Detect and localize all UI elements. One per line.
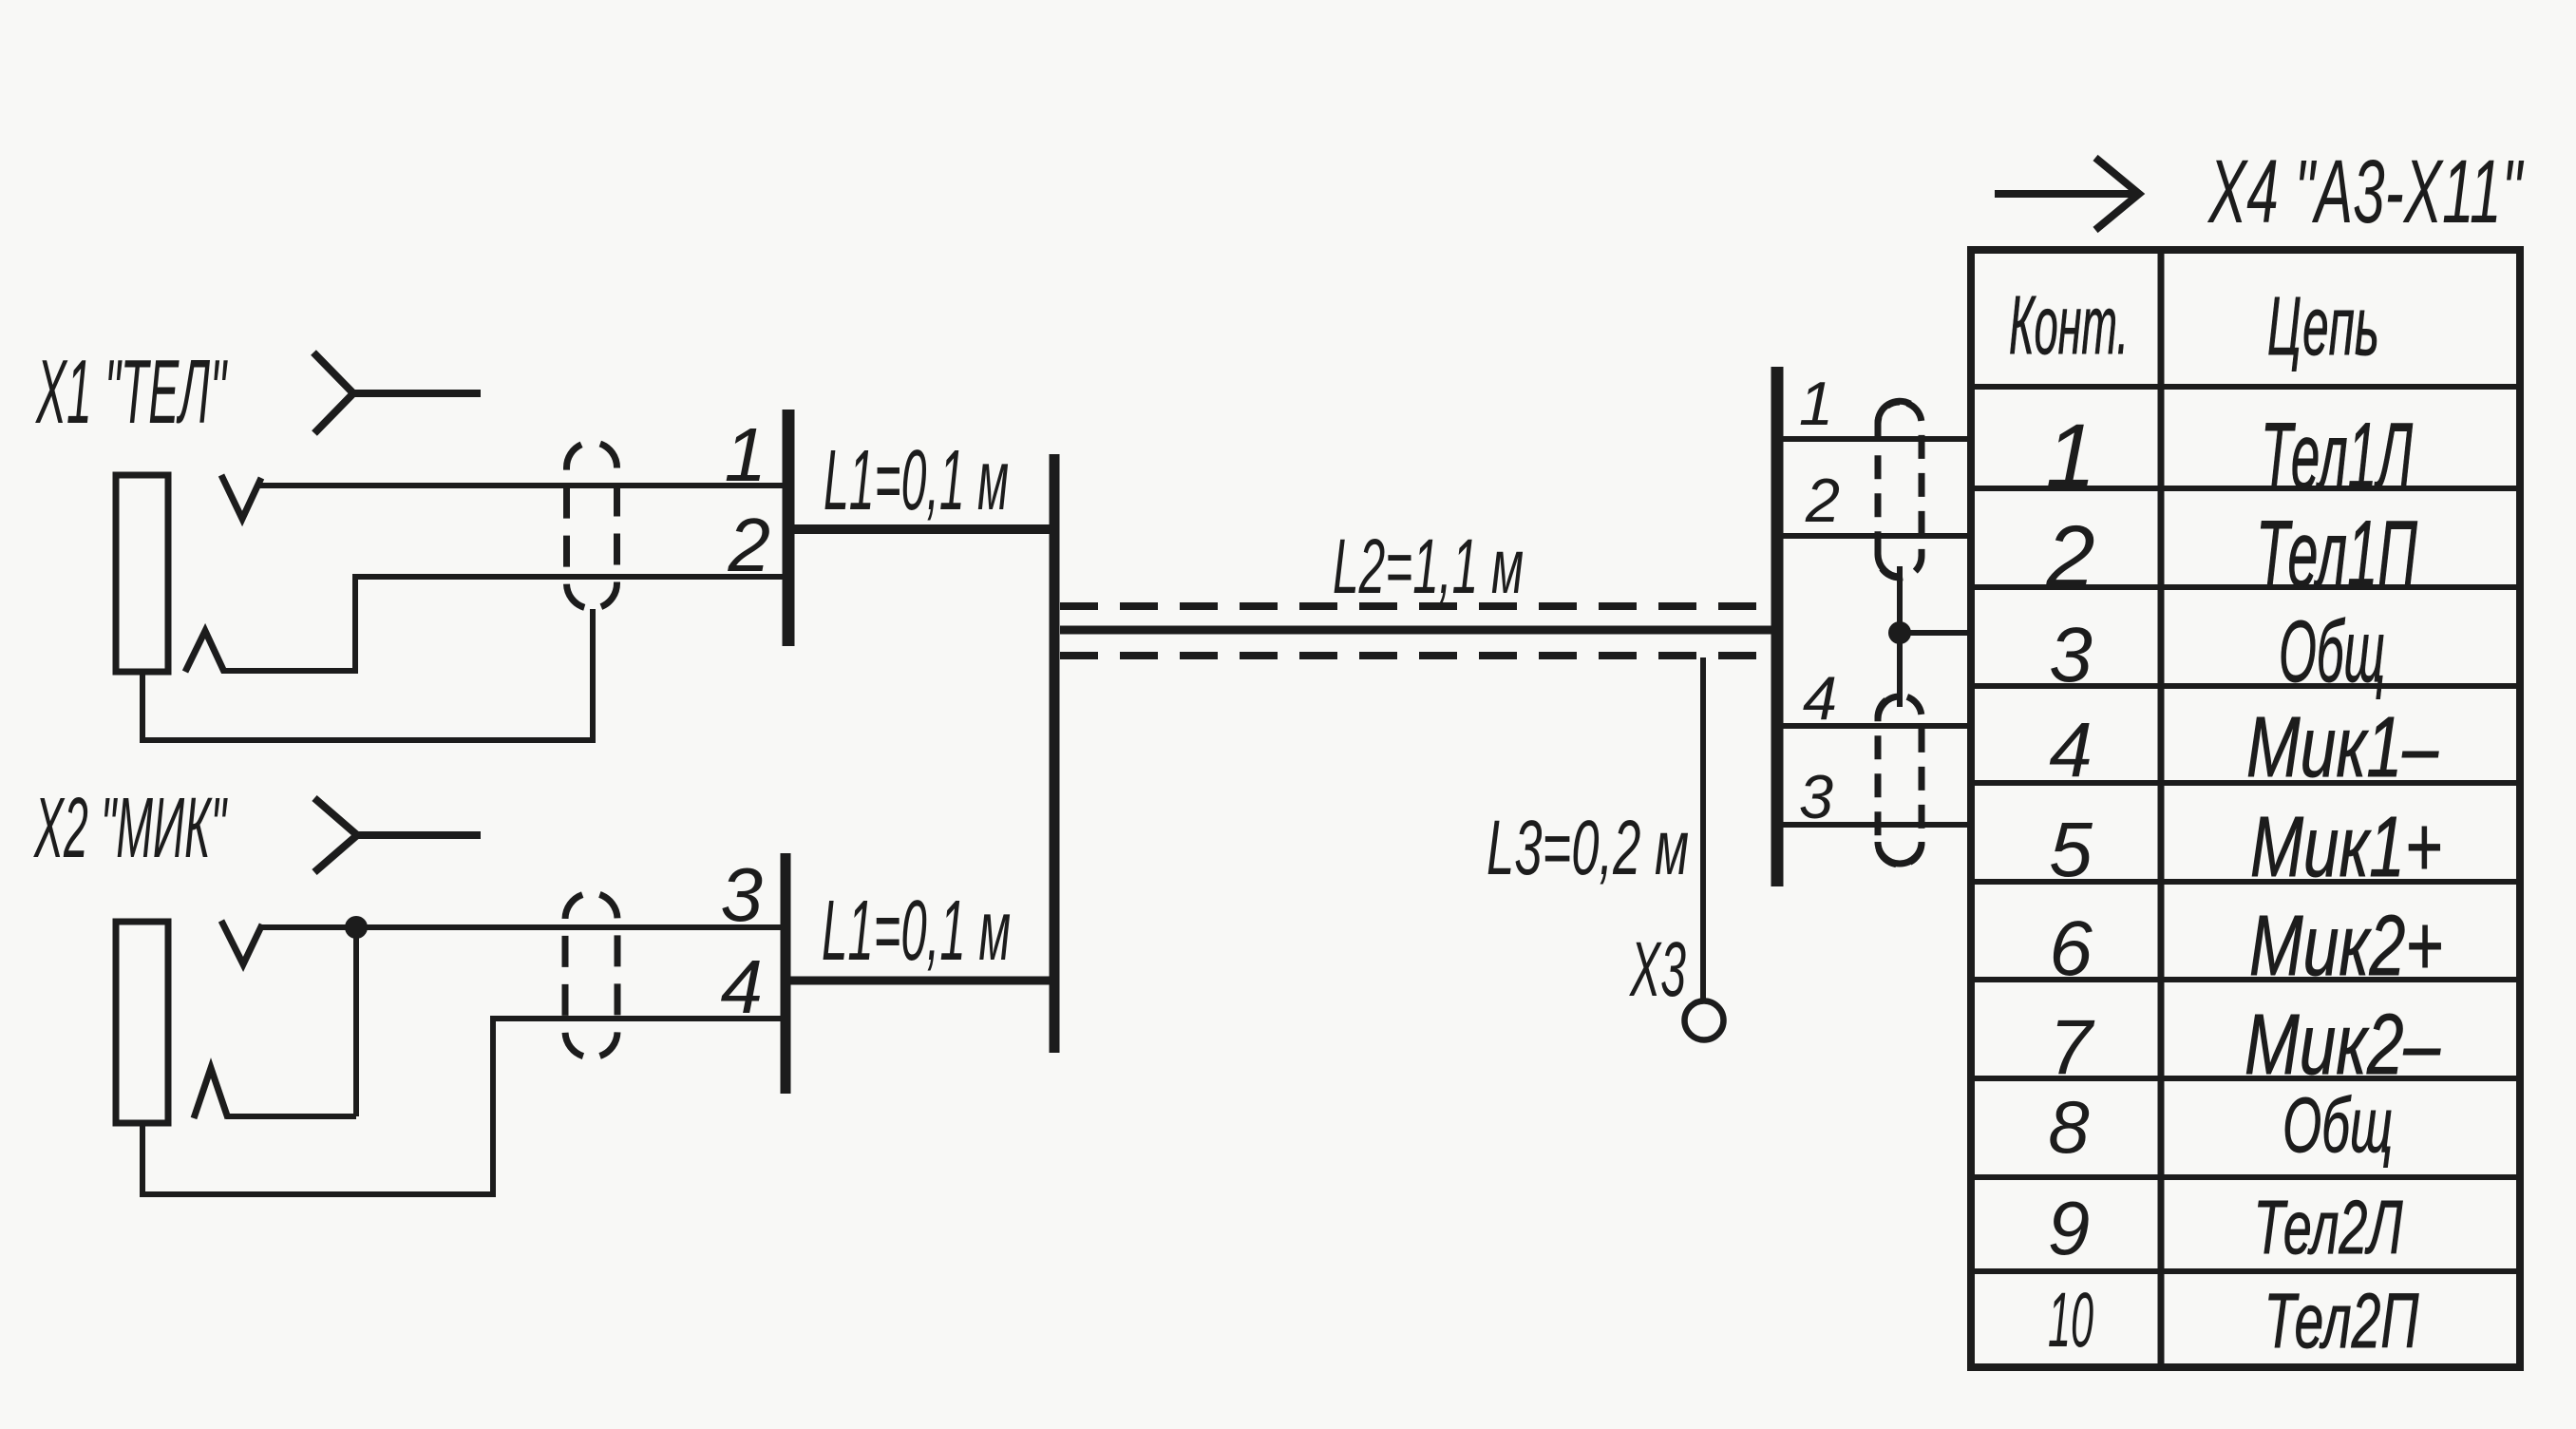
jack X2 tip contact <box>221 921 262 964</box>
shield S4 top hook <box>1878 696 1900 719</box>
svg-text:3: 3 <box>1799 762 1833 831</box>
svg-text:3: 3 <box>2049 612 2093 698</box>
wire stub pin3 <box>1783 822 1968 828</box>
table row line 8 <box>1971 1174 2520 1180</box>
jack X1 ring contact <box>185 631 224 672</box>
connector X3 terminal <box>1685 1001 1724 1040</box>
shield S3 top arc <box>1878 401 1910 424</box>
table X4 frame <box>1971 250 2520 1367</box>
svg-text:2: 2 <box>1805 466 1840 535</box>
table row line header <box>1971 384 2520 390</box>
svg-text:4: 4 <box>2049 707 2093 793</box>
svg-text:6: 6 <box>2049 905 2093 992</box>
connector bus A3-X11 <box>1771 367 1784 886</box>
svg-text:L1=0,1 м: L1=0,1 м <box>824 433 1009 528</box>
arrow to X4 <box>1995 158 2139 230</box>
node junction X2 tip-ring <box>345 916 368 939</box>
wire pin2 X1 <box>221 577 783 671</box>
shield S3 upper <box>1878 402 1922 578</box>
svg-text:X3: X3 <box>1629 926 1686 1013</box>
svg-text:2: 2 <box>2045 508 2094 605</box>
shield S1 <box>567 443 617 609</box>
svg-text:1: 1 <box>1799 369 1833 438</box>
table row line 3 <box>1971 683 2520 689</box>
wire L1 top <box>788 524 1054 534</box>
svg-text:X1 "ТЕЛ": X1 "ТЕЛ" <box>35 341 228 443</box>
jack X1 tip contact <box>221 475 261 519</box>
wire cable shield top (dashed) <box>1060 602 1772 610</box>
svg-text:Общ: Общ <box>2279 603 2385 700</box>
svg-text:L1=0,1 м: L1=0,1 м <box>822 884 1011 979</box>
svg-text:2: 2 <box>728 503 771 587</box>
wire cable core (L2) <box>1060 626 1772 635</box>
svg-text:Мик1–: Мик1– <box>2246 700 2439 795</box>
connector bus X1 <box>783 410 795 646</box>
table row line 7 <box>1971 1076 2520 1081</box>
svg-text:Мик2+: Мик2+ <box>2249 899 2443 994</box>
shield S2 <box>565 893 617 1057</box>
svg-text:4: 4 <box>1803 663 1837 733</box>
svg-text:Тел1П: Тел1П <box>2256 501 2417 606</box>
connector X2 arrow symbol <box>314 798 481 872</box>
shield S4 lower <box>1878 695 1922 865</box>
svg-text:Конт.: Конт. <box>2009 279 2129 372</box>
svg-text:1: 1 <box>2046 406 2096 506</box>
wire shield drain X1 <box>142 609 593 740</box>
node cable bundle bus <box>1050 454 1060 1053</box>
table row line 6 <box>1971 977 2520 982</box>
jack X2 body <box>116 922 168 1123</box>
wire tip-ring link X2 <box>353 927 359 1116</box>
svg-text:X2 "МИК": X2 "МИК" <box>33 781 228 876</box>
connector X1 arrow symbol <box>313 352 481 433</box>
wire pin1 X1 <box>258 483 783 488</box>
svg-text:Тел2П: Тел2П <box>2264 1278 2419 1364</box>
wire stub shield <box>1900 630 1968 636</box>
table row line 2 <box>1971 584 2520 590</box>
table row line 5 <box>1971 879 2520 885</box>
svg-text:4: 4 <box>721 944 764 1029</box>
svg-text:L2=1,1 м: L2=1,1 м <box>1333 524 1524 610</box>
svg-text:Тел2Л: Тел2Л <box>2254 1185 2403 1269</box>
node shield junction <box>1888 621 1911 644</box>
svg-text:Тел1Л: Тел1Л <box>2261 403 2414 508</box>
wire ring X2 <box>226 1114 356 1119</box>
wire stub pin2 <box>1783 533 1968 539</box>
svg-text:Мик1+: Мик1+ <box>2250 800 2442 895</box>
svg-text:8: 8 <box>2048 1085 2089 1169</box>
table row line 4 <box>1971 780 2520 786</box>
wire X3 drop <box>1700 657 1706 1001</box>
shield S3 link wire <box>1897 566 1903 707</box>
wire cable shield bottom (dashed) <box>1060 652 1772 659</box>
svg-text:5: 5 <box>2049 807 2093 893</box>
table row line 1 <box>1971 486 2520 491</box>
svg-text:Мик2–: Мик2– <box>2245 998 2441 1093</box>
wire stub pin1 <box>1783 436 1968 442</box>
wire stub pin4 <box>1783 723 1968 729</box>
svg-text:3: 3 <box>721 852 764 937</box>
svg-text:7: 7 <box>2049 1004 2095 1091</box>
jack X1 body <box>116 475 168 672</box>
svg-text:X4 "А3-Х11": X4 "А3-Х11" <box>2207 142 2525 242</box>
svg-text:L3=0,2 м: L3=0,2 м <box>1487 805 1689 891</box>
svg-text:Общ: Общ <box>2282 1082 2393 1169</box>
svg-text:Цепь: Цепь <box>2267 280 2379 372</box>
jack X2 ring contact <box>194 1068 228 1118</box>
svg-text:9: 9 <box>2048 1186 2091 1270</box>
shield S4 bottom arc <box>1878 842 1922 864</box>
table row line 9 <box>1971 1268 2520 1274</box>
wire pin3 X2 <box>258 924 783 930</box>
wire shield drain X2 <box>142 1019 783 1194</box>
svg-text:1: 1 <box>725 412 767 497</box>
shield S3 bottom hook <box>1878 554 1900 577</box>
table column separator <box>2158 250 2165 1367</box>
connector bus X2 <box>781 853 791 1094</box>
svg-text:10: 10 <box>2048 1277 2093 1363</box>
wire L1 bottom <box>786 977 1052 985</box>
